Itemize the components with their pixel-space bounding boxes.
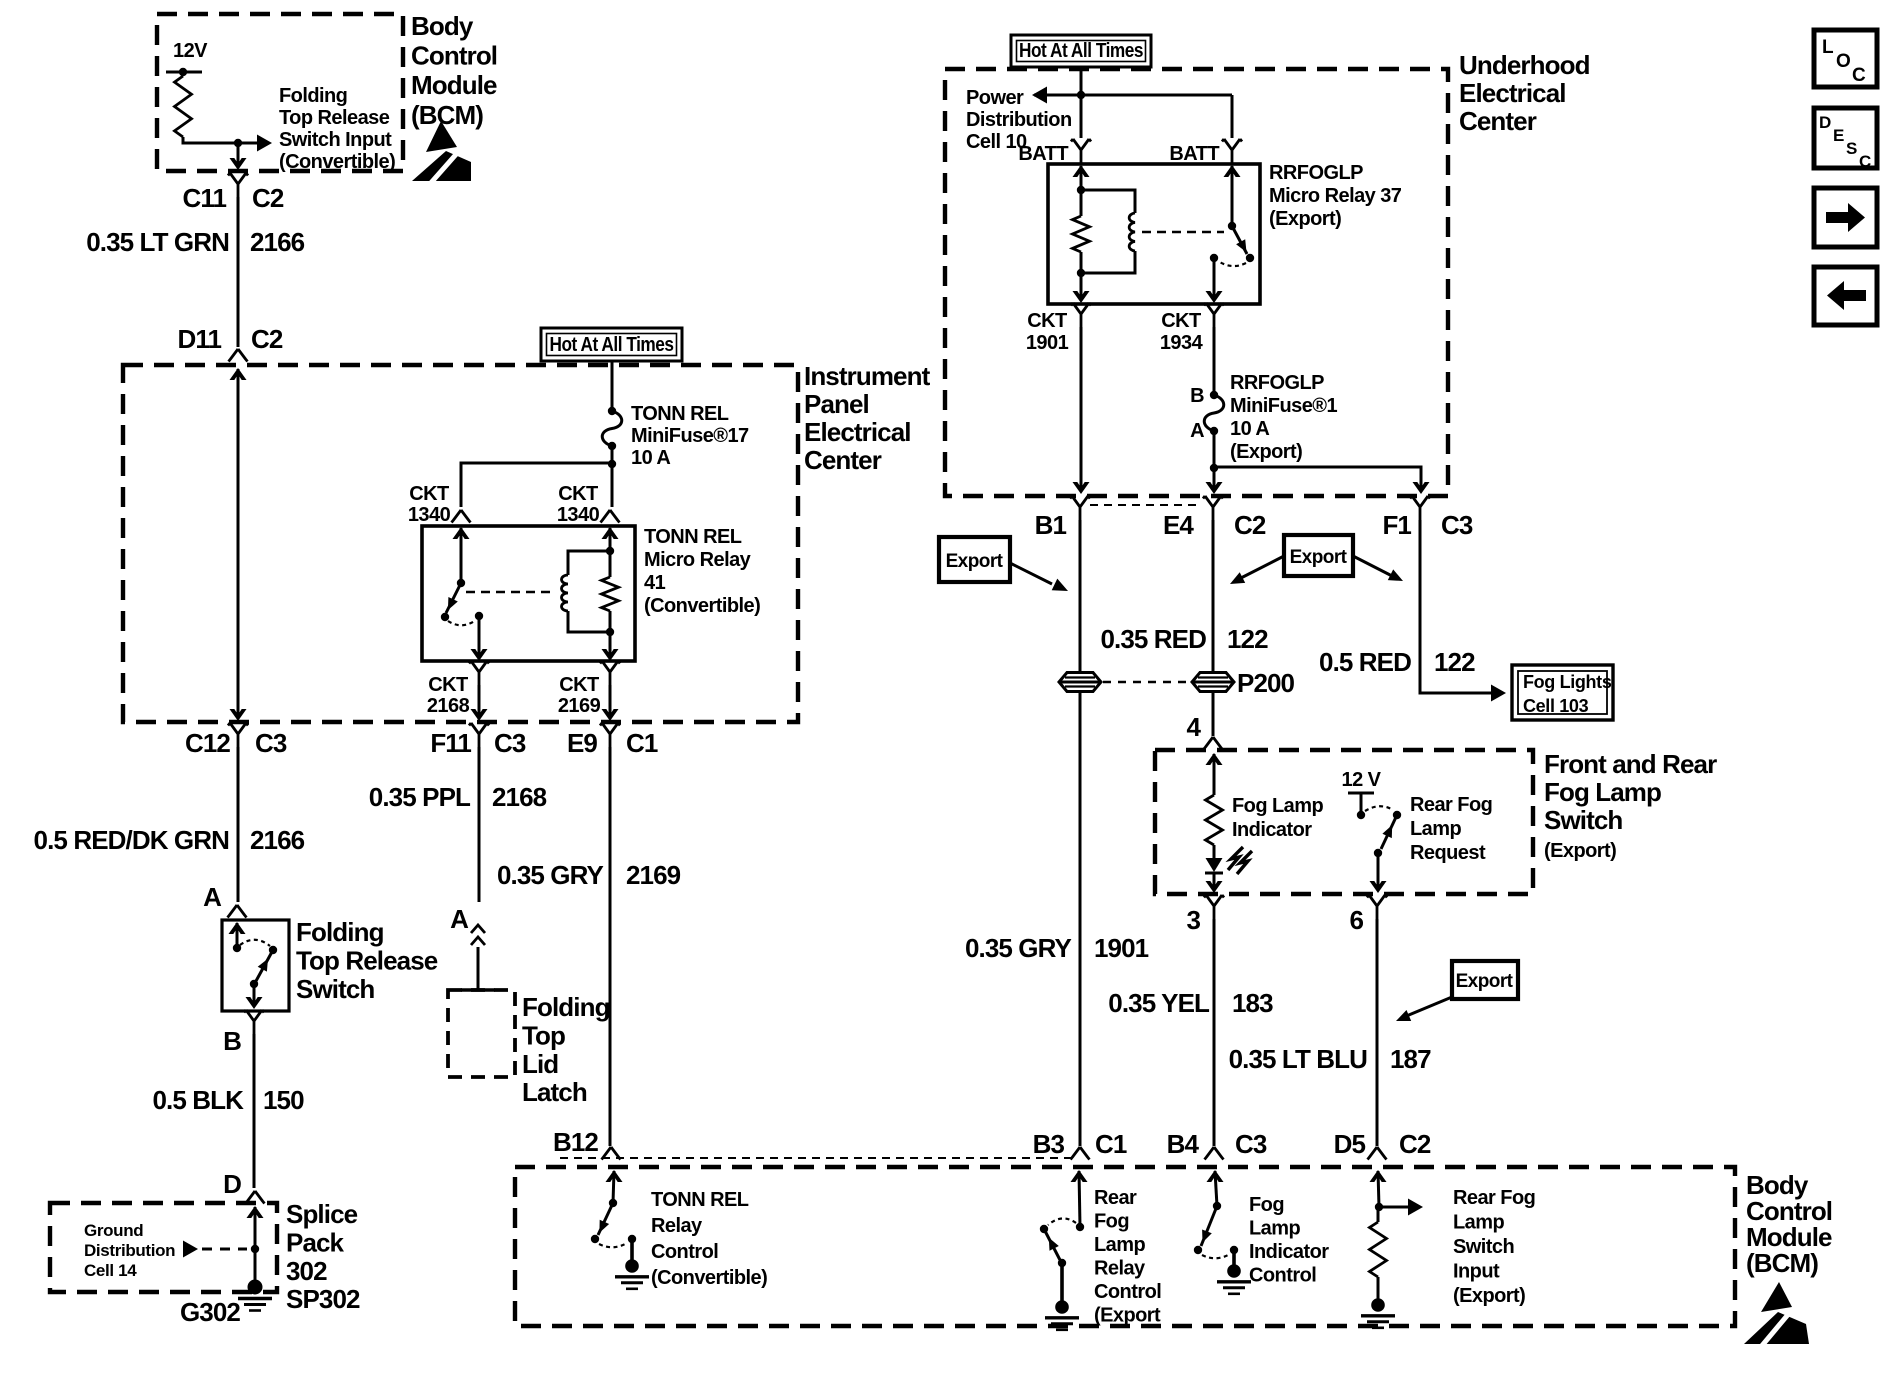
- BCM fog indicator travel arc (dashed): [1202, 1254, 1230, 1258]
- BCM TONN REL travel arc (dashed): [599, 1243, 627, 1247]
- connector B4 (male half): [1205, 1147, 1224, 1160]
- pin label A (lid latch): [450, 904, 469, 934]
- component box: Folding Top Lid Latch (dashed): [448, 990, 515, 1077]
- svg-text:187: 187: [1390, 1044, 1431, 1074]
- connector B1 (female half): [1070, 496, 1090, 520]
- nav button next (right arrow): [1814, 188, 1877, 247]
- fog request pivot: [1374, 849, 1382, 857]
- fog request output leg: [1370, 853, 1387, 893]
- fog request moving contact: [1393, 811, 1401, 819]
- svg-text:Ground: Ground: [84, 1221, 143, 1240]
- wire label 1901: [1094, 933, 1149, 963]
- relay 37 output contact: [1210, 254, 1218, 262]
- arrow: export to E4 wire: [1230, 556, 1284, 584]
- 12V terminal bar: [166, 68, 202, 76]
- svg-text:C1: C1: [1095, 1129, 1127, 1159]
- svg-text:0.35 GRY: 0.35 GRY: [965, 933, 1072, 963]
- svg-text:Fog: Fog: [1249, 1194, 1284, 1216]
- pin label F1: [1382, 510, 1411, 540]
- svg-text:S: S: [1846, 139, 1857, 158]
- ground: fog lamp indicator control: [1217, 1250, 1251, 1294]
- dashed connector tie B12-B3: [560, 1157, 1076, 1159]
- relay 41 switch arm: [446, 583, 461, 613]
- svg-text:183: 183: [1232, 988, 1273, 1018]
- svg-text:Power: Power: [966, 87, 1024, 109]
- svg-text:Electrical: Electrical: [1459, 78, 1566, 108]
- svg-text:0.5 RED: 0.5 RED: [1319, 647, 1411, 677]
- svg-text:(BCM): (BCM): [411, 100, 483, 130]
- pin label E4: [1163, 510, 1194, 540]
- relay 41 switch arm contact: [441, 613, 449, 621]
- svg-text:0.5 RED/DK GRN: 0.5 RED/DK GRN: [34, 825, 230, 855]
- module box: Instrument Panel Electrical Center: [123, 365, 798, 722]
- relay 37 control dashed link: [1142, 231, 1224, 233]
- connector fog switch pin 3 (female half): [1204, 895, 1224, 919]
- fuse: TONN REL MiniFuse 17: [602, 407, 622, 450]
- svg-text:(Export): (Export): [1544, 840, 1616, 862]
- svg-text:Cell 103: Cell 103: [1523, 696, 1589, 716]
- wire 150: switch B to splice D: [253, 1034, 256, 1188]
- svg-text:D11: D11: [177, 324, 221, 354]
- svg-text:1901: 1901: [1026, 332, 1069, 354]
- relay 41 switch pivot: [457, 579, 465, 587]
- wire 187: fog pin 6 to D5: [1376, 919, 1379, 1146]
- release switch input leg: [229, 922, 246, 948]
- callout box Export (lower): [1452, 961, 1518, 999]
- release switch output leg: [246, 984, 263, 1009]
- module box: Front and Rear Fog Lamp Switch: [1155, 750, 1533, 894]
- svg-text:(BCM): (BCM): [1746, 1248, 1818, 1278]
- wire: chevron to lid latch: [477, 947, 480, 990]
- svg-text:B4: B4: [1167, 1129, 1200, 1159]
- connector fog switch pin 4 (male half): [1204, 737, 1223, 750]
- fog request 12V terminal: [1348, 793, 1374, 811]
- svg-text:P200: P200: [1237, 668, 1295, 698]
- svg-text:Panel: Panel: [804, 389, 869, 419]
- svg-text:C1: C1: [626, 728, 658, 758]
- wire 2169: E9 to B12: [609, 747, 612, 1146]
- wire label 187: [1390, 1044, 1431, 1074]
- svg-text:Distribution: Distribution: [966, 109, 1072, 131]
- svg-text:Input: Input: [1453, 1261, 1500, 1283]
- wire label 0.5 RED: [1319, 647, 1411, 677]
- dashed connector tie B1-E4: [1090, 504, 1200, 506]
- connector BATT left (female half): [1071, 139, 1091, 163]
- svg-text:D: D: [1819, 113, 1831, 132]
- svg-text:2168: 2168: [492, 782, 547, 812]
- connector below relay 37 left (female half): [1071, 303, 1091, 327]
- svg-text:Instrument: Instrument: [804, 361, 931, 391]
- svg-text:Relay: Relay: [651, 1215, 703, 1237]
- svg-text:12 V: 12 V: [1342, 769, 1382, 791]
- label Export (middle): [1290, 547, 1348, 568]
- label CKT 1934: [1160, 310, 1204, 354]
- svg-text:C2: C2: [1234, 510, 1266, 540]
- pin label C2 (top): [252, 183, 284, 213]
- wire label 0.35 GRY (1901): [965, 933, 1072, 963]
- node: BCM switch input junction: [234, 139, 242, 147]
- wire: D11 feed-through inside IP center: [230, 368, 247, 721]
- svg-text:Control: Control: [1094, 1281, 1161, 1303]
- wire label 2168: [492, 782, 547, 812]
- module box: Splice Pack ground distribution: [50, 1203, 277, 1292]
- label TONN REL Relay Control (Convertible): [651, 1189, 767, 1289]
- dashed link to splice: [202, 1248, 247, 1251]
- lid latch terminal bar: [461, 988, 495, 991]
- relay 37 coil supply leg: [1073, 165, 1090, 190]
- relay 41 output contact: [475, 612, 483, 620]
- release switch fixed contact: [233, 944, 241, 952]
- wire label 0.5 RED/DK GRN: [34, 825, 230, 855]
- pin label C1 (at E9): [626, 728, 658, 758]
- svg-text:0.35 PPL: 0.35 PPL: [369, 782, 471, 812]
- resistor: rear fog switch input pull: [1370, 1222, 1387, 1277]
- svg-text:TONN REL: TONN REL: [644, 526, 742, 548]
- arrow: export callout to B1 wire: [1010, 563, 1068, 591]
- svg-text:Distribution: Distribution: [84, 1241, 175, 1260]
- label Fog Lamp Indicator: [1232, 795, 1323, 841]
- label TONN REL Micro Relay 41 (Convertible): [644, 526, 760, 617]
- wire 2168: F11 down: [478, 747, 481, 902]
- wire to ground G302: [254, 1249, 257, 1281]
- fog lamp indicator input leg: [1206, 753, 1223, 795]
- connector switch pin B (female half): [244, 1010, 264, 1034]
- node: fuse output junction: [608, 460, 616, 468]
- label Body Control Module (BCM) bottom: [1746, 1170, 1832, 1278]
- relay 37 switch arm contact: [1246, 254, 1254, 262]
- connector B3 (male half): [1071, 1147, 1090, 1160]
- svg-text:6: 6: [1349, 905, 1363, 935]
- connector splice pin D (male half): [246, 1191, 265, 1204]
- svg-text:Switch: Switch: [1544, 805, 1622, 835]
- connector fog switch pin 6 (female half): [1367, 895, 1387, 919]
- svg-text:0.35 GRY: 0.35 GRY: [497, 860, 604, 890]
- connector BATT right (female half): [1222, 139, 1242, 163]
- nav button DESC: [1814, 108, 1877, 171]
- svg-text:12V: 12V: [173, 40, 208, 62]
- callout box Hot At All Times (UHEC): [1011, 35, 1151, 67]
- label Underhood Electrical Center: [1459, 50, 1590, 136]
- label Export (left): [946, 551, 1004, 572]
- connector B12 (male half): [602, 1147, 621, 1160]
- svg-text:10 A: 10 A: [1230, 418, 1269, 440]
- svg-text:C3: C3: [255, 728, 287, 758]
- svg-text:Fog Lamp: Fog Lamp: [1544, 777, 1661, 807]
- connector E4/C2 (female half): [1203, 496, 1223, 520]
- BCM TONN REL input leg: [606, 1170, 623, 1203]
- relay 37 coil: [1081, 190, 1135, 273]
- svg-text:Lamp: Lamp: [1410, 818, 1461, 840]
- svg-text:Folding: Folding: [279, 85, 347, 107]
- svg-text:Control: Control: [411, 41, 497, 71]
- connector lid latch pin A (double chevron): [471, 925, 485, 945]
- pin label 3: [1186, 905, 1200, 935]
- BCM fog indicator ground contact: [1230, 1246, 1238, 1254]
- svg-text:Micro Relay: Micro Relay: [644, 549, 752, 571]
- relay 41 coil return leg: [602, 632, 619, 661]
- svg-text:4: 4: [1186, 712, 1201, 742]
- label Fog Lights Cell 103: [1523, 672, 1612, 716]
- wire 1901: B1 to B3: [1079, 692, 1082, 1146]
- BCM TONN REL switch arm: [598, 1203, 613, 1235]
- BCM rear fog relay input leg: [1071, 1170, 1088, 1227]
- svg-text:2168: 2168: [427, 695, 470, 717]
- svg-text:10 A: 10 A: [631, 447, 670, 469]
- LED: fog lamp indicator: [1205, 845, 1223, 873]
- pin label C3 (at F11): [494, 728, 526, 758]
- BCM TONN REL pivot: [609, 1199, 617, 1207]
- label CKT 1340 (left): [408, 483, 451, 526]
- svg-text:Center: Center: [804, 445, 882, 475]
- svg-text:Request: Request: [1410, 842, 1486, 864]
- splice wire into pack: [247, 1206, 264, 1249]
- dashed tie between P200 grommets: [1103, 681, 1190, 683]
- label Folding Top Lid Latch: [522, 992, 610, 1107]
- nav button back (left arrow): [1814, 267, 1877, 325]
- connector below relay 41 right (female half): [600, 661, 620, 685]
- fog request travel arc (dashed): [1365, 806, 1393, 811]
- svg-text:CKT: CKT: [559, 674, 599, 696]
- pin label C11: [182, 183, 226, 213]
- svg-text:BATT: BATT: [1018, 143, 1068, 165]
- svg-text:Top Release: Top Release: [279, 107, 390, 129]
- connector D5 (male half): [1368, 1147, 1387, 1160]
- svg-text:C3: C3: [1441, 510, 1473, 540]
- svg-text:F1: F1: [1382, 510, 1411, 540]
- wire 2166: C11 to D11: [237, 197, 240, 347]
- svg-text:302: 302: [286, 1256, 327, 1286]
- wire: resistor to ground: [1377, 1207, 1380, 1300]
- label Hot At All Times (UHEC): [1019, 40, 1143, 62]
- svg-text:SP302: SP302: [286, 1284, 360, 1314]
- wire 122: E4 segment: [1212, 520, 1215, 672]
- svg-text:Splice: Splice: [286, 1199, 358, 1229]
- pin label C2 (at E4): [1234, 510, 1266, 540]
- arrow: internal signal to label: [238, 135, 272, 152]
- pin labels B3/C1: [1033, 1129, 1127, 1159]
- svg-text:(Export): (Export): [1453, 1285, 1525, 1307]
- svg-text:Lid: Lid: [522, 1049, 558, 1079]
- wire: CKT 1901 down to B1: [1073, 327, 1090, 494]
- svg-text:Fog: Fog: [1094, 1211, 1129, 1233]
- svg-text:0.35 LT GRN: 0.35 LT GRN: [86, 227, 229, 257]
- svg-text:Rear: Rear: [1094, 1187, 1137, 1209]
- arrow: export to 187 wire: [1396, 997, 1452, 1021]
- wire: resistor to output node: [183, 137, 238, 143]
- relay 37 coil resistor: [1073, 186, 1090, 277]
- svg-text:B: B: [1190, 385, 1204, 407]
- svg-text:122: 122: [1227, 624, 1268, 654]
- wire: hot feed to fuse 17: [611, 361, 614, 411]
- svg-text:2166: 2166: [250, 227, 305, 257]
- pin label 4: [1186, 712, 1201, 742]
- connector: relay 41 pin top-right (male half): [601, 510, 620, 523]
- svg-text:B12: B12: [553, 1127, 598, 1157]
- pin labels B4/C3: [1167, 1129, 1267, 1159]
- switch box: Folding Top Release Switch: [222, 920, 289, 1011]
- BCM rear fog relay fixed contact: [1076, 1223, 1084, 1231]
- label CKT 2169: [558, 674, 601, 717]
- pin label B12: [553, 1127, 598, 1157]
- connector C11/C2 (female half): [228, 173, 248, 197]
- relay 41 switch common leg: [453, 527, 470, 583]
- svg-text:MiniFuse®17: MiniFuse®17: [631, 425, 749, 447]
- svg-text:0.5 BLK: 0.5 BLK: [152, 1085, 244, 1115]
- svg-text:Lamp: Lamp: [1453, 1212, 1504, 1234]
- label BATT (right): [1169, 143, 1219, 165]
- connector D11/C2 (male half): [229, 349, 248, 362]
- svg-text:Folding: Folding: [296, 917, 384, 947]
- svg-text:1901: 1901: [1094, 933, 1149, 963]
- connector F1/C3 (female half): [1410, 496, 1430, 520]
- svg-text:Relay: Relay: [1094, 1258, 1146, 1280]
- connector below relay 41 left (female half): [469, 661, 489, 685]
- svg-text:(Convertible): (Convertible): [651, 1267, 767, 1289]
- label Power Distribution Cell 10: [966, 87, 1072, 153]
- svg-text:TONN REL: TONN REL: [651, 1189, 749, 1211]
- label Splice Pack 302 SP302: [286, 1199, 360, 1314]
- wire label 150: [263, 1085, 304, 1115]
- svg-text:Underhood: Underhood: [1459, 50, 1590, 80]
- wire: relay 41 NO to F11: [471, 685, 488, 721]
- connector C12/C3 (female half): [228, 723, 248, 747]
- svg-text:Switch: Switch: [1453, 1236, 1514, 1258]
- callout box Fog Lights Cell 103: [1512, 665, 1613, 720]
- callout box Export (middle): [1284, 535, 1353, 576]
- relay box: TONN REL Micro Relay 41: [422, 526, 635, 661]
- fog request switch arm: [1381, 815, 1397, 849]
- pin label A (release switch): [203, 882, 222, 912]
- relay 41 output leg: [471, 616, 488, 661]
- wire: fuse node down to relay 41: [611, 464, 614, 507]
- ground G302 symbol: [238, 1280, 272, 1311]
- svg-text:Hot At All Times: Hot At All Times: [550, 334, 674, 356]
- relay 37 switch pivot: [1228, 222, 1236, 230]
- wire label 2169 (wire): [626, 860, 681, 890]
- svg-text:Latch: Latch: [522, 1077, 587, 1107]
- wire 2166: C12 to switch A: [237, 747, 240, 902]
- svg-text:2169: 2169: [626, 860, 681, 890]
- svg-text:C12: C12: [185, 728, 230, 758]
- pin label C3 (at F1): [1441, 510, 1473, 540]
- svg-text:Lamp: Lamp: [1094, 1234, 1145, 1256]
- wire: branch to F1: [1214, 467, 1430, 494]
- fog request fixed contact: [1357, 811, 1365, 819]
- svg-text:A: A: [203, 882, 222, 912]
- pin label B (fuse 1): [1190, 385, 1204, 407]
- nav button LOC: [1814, 30, 1877, 87]
- label Rear Fog Lamp Switch Input (Export): [1453, 1187, 1535, 1307]
- wire label 0.35 LT GRN: [86, 227, 229, 257]
- BCM rear fog switch input node: [1375, 1203, 1383, 1211]
- wire label 0.35 YEL: [1108, 988, 1210, 1018]
- svg-text:122: 122: [1434, 647, 1475, 677]
- svg-text:C2: C2: [251, 324, 283, 354]
- BCM TONN REL arm contact: [591, 1235, 599, 1243]
- svg-text:A: A: [450, 904, 469, 934]
- svg-text:Center: Center: [1459, 106, 1537, 136]
- wire 122: F1 to fog lights cell: [1420, 520, 1506, 702]
- wire label 0.35 PPL: [369, 782, 471, 812]
- arrow: switch input signal: [1379, 1199, 1423, 1216]
- svg-text:RRFOGLP: RRFOGLP: [1269, 162, 1363, 184]
- wire label 122 (F1): [1434, 647, 1475, 677]
- pass-through grommet P200 (left): [1059, 673, 1101, 692]
- svg-text:D5: D5: [1334, 1129, 1366, 1159]
- connector E9/C1 (female half): [600, 723, 620, 747]
- wire label 2166 (lower): [250, 825, 305, 855]
- module box: Body Control Module (BCM) bottom: [515, 1167, 1735, 1326]
- svg-text:2169: 2169: [558, 695, 601, 717]
- node SP302 junction: [251, 1245, 259, 1253]
- wire label 0.35 LT BLU: [1229, 1044, 1368, 1074]
- pin label F11: [430, 728, 471, 758]
- svg-text:CKT: CKT: [409, 483, 449, 505]
- arrow: ground distribution reference: [183, 1241, 198, 1258]
- svg-text:CKT: CKT: [558, 483, 598, 505]
- label Rear Fog Lamp Relay Control (Export: [1094, 1187, 1161, 1327]
- svg-text:Folding: Folding: [522, 992, 610, 1022]
- fog lamp indicator output leg: [1206, 873, 1223, 893]
- svg-text:0.35 YEL: 0.35 YEL: [1108, 988, 1210, 1018]
- wire: junction down to pin C11: [230, 143, 247, 170]
- BCM rear fog travel arc (dashed): [1048, 1218, 1076, 1225]
- wire label 183: [1232, 988, 1273, 1018]
- relay 41 control dashed link: [466, 591, 552, 593]
- pin label D11: [177, 324, 221, 354]
- pin label B (release switch): [223, 1026, 241, 1056]
- svg-text:Export: Export: [1456, 971, 1514, 992]
- wire: power distribution rail: [1034, 94, 1232, 97]
- relay box: RRFOGLP Micro Relay 37: [1048, 164, 1260, 304]
- label 12V (BCM internal supply): [173, 40, 208, 62]
- label RRFOGLP MiniFuse 1 10 A (Export): [1230, 372, 1337, 463]
- callout box Hot At All Times (IP): [541, 328, 682, 361]
- svg-text:Indicator: Indicator: [1232, 819, 1312, 841]
- svg-text:Fog Lamp: Fog Lamp: [1232, 795, 1323, 817]
- arrow: power distribution reference: [1032, 87, 1047, 104]
- resistor: fog lamp indicator: [1206, 795, 1223, 845]
- wire label 0.35 RED: [1100, 624, 1206, 654]
- BCM fog indicator input leg: [1207, 1170, 1224, 1206]
- node: hot feed junction: [1077, 91, 1085, 99]
- svg-text:Export: Export: [1290, 547, 1348, 568]
- ESD sensitivity symbol (BCM top): [412, 121, 471, 185]
- callout box Export (left): [939, 537, 1010, 582]
- label CKT 2168: [427, 674, 470, 717]
- svg-text:0.35 RED: 0.35 RED: [1100, 624, 1206, 654]
- ESD sensitivity symbol (BCM bottom): [1744, 1282, 1809, 1348]
- connector F11/C3 (female half): [469, 723, 489, 747]
- label Body Control Module (BCM): [411, 11, 497, 130]
- pin label B1: [1035, 510, 1067, 540]
- svg-text:O: O: [1836, 51, 1850, 72]
- pin label 6: [1349, 905, 1363, 935]
- module box: Body Control Module (BCM) top-left: [157, 14, 403, 171]
- pin label C12: [185, 728, 230, 758]
- BCM fog indicator pivot: [1213, 1202, 1221, 1210]
- wire: fuse to splice node: [611, 446, 614, 464]
- svg-text:Hot At All Times: Hot At All Times: [1019, 40, 1143, 62]
- pin labels D5/C2: [1334, 1129, 1431, 1159]
- node: fuse 1 output junction: [1210, 464, 1218, 472]
- BCM fog indicator switch arm: [1201, 1206, 1217, 1246]
- relay 41 coil: [562, 551, 610, 632]
- wire: relay 41 coil- to E9: [602, 685, 619, 721]
- svg-text:1340: 1340: [408, 504, 451, 526]
- svg-text:Cell 14: Cell 14: [84, 1261, 137, 1280]
- svg-text:Lamp: Lamp: [1249, 1218, 1300, 1240]
